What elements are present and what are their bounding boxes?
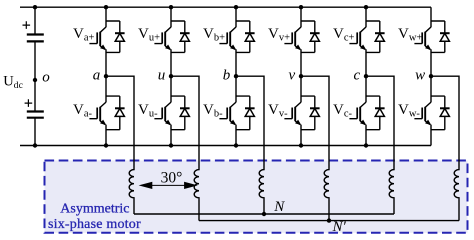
svg-text:Asymmetric: Asymmetric	[60, 202, 129, 217]
svg-text:N′: N′	[332, 219, 347, 235]
svg-text:30°: 30°	[161, 170, 183, 187]
svg-text:a: a	[93, 67, 101, 83]
svg-text:b: b	[223, 67, 231, 83]
svg-text:c: c	[354, 67, 361, 83]
svg-text:six-phase motor: six-phase motor	[48, 217, 141, 232]
svg-text:u: u	[158, 67, 166, 83]
svg-text:w: w	[415, 67, 425, 83]
svg-text:v: v	[289, 67, 296, 83]
svg-text:o: o	[42, 70, 50, 86]
svg-text:N: N	[273, 199, 285, 215]
